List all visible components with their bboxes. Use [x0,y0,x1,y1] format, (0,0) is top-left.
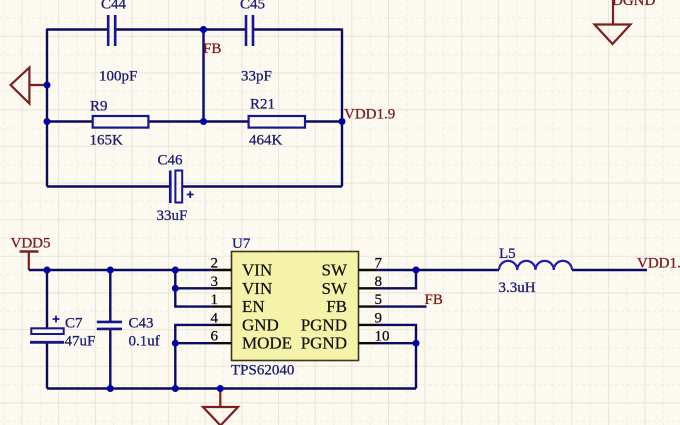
svg-text:L5: L5 [499,246,516,262]
wire C43 top drop [109,270,111,321]
svg-text:7: 7 [375,256,383,272]
svg-text:9: 9 [375,310,383,326]
svg-text:C43: C43 [129,316,154,332]
wire right vertical rail [341,29,343,187]
wire L5 to VDD1.9 [572,269,647,271]
wire vertical pins 2-3-1 column [175,270,213,307]
svg-text:2: 2 [211,256,219,272]
svg-text:R9: R9 [90,99,108,115]
svg-text:U7: U7 [232,236,251,252]
capacitor C45 [240,0,272,85]
junction: bottom bus / ground [217,385,224,392]
svg-text:PGND: PGND [301,315,347,334]
junction: left rail / arrow stub [44,82,51,89]
junction: bus / C7 [44,267,51,274]
junction: bottom bus / pins column [172,385,179,392]
inductor L5 [499,246,573,296]
junction: left rail / middle row [44,118,51,125]
wire C43 bottom drop [109,330,111,389]
svg-text:100pF: 100pF [99,69,137,85]
svg-text:33uF: 33uF [157,208,188,224]
ground (below chip) [203,389,238,425]
svg-text:1: 1 [211,292,219,308]
capacitor C7 (polarized) [30,316,95,350]
svg-text:C44: C44 [101,0,127,13]
wire R21 to VDD1.9 node [305,120,342,122]
pin stubs left (pins 2,3,1,4,6) [213,270,232,343]
junction: bus / pins column [172,267,179,274]
wire pin7 to inductor L5 [416,269,499,271]
junction: right rail / middle row (VDD1.9) [339,118,346,125]
wire VDD5 bus to chip pin2 [29,269,213,271]
svg-text:VIN: VIN [242,261,272,280]
svg-text:FB: FB [425,292,443,308]
svg-text:C7: C7 [65,316,83,332]
svg-text:3: 3 [211,274,219,290]
resistor R21 [249,97,305,149]
svg-text:VDD1.9: VDD1.9 [637,256,680,272]
svg-text:6: 6 [211,329,219,345]
wire pin3 row [175,287,213,289]
wire pin9/10 to bottom bus [377,325,416,389]
wire bottom bus [47,387,416,389]
junction: bottom bus / C43 [107,385,114,392]
wire pin10 row [377,342,416,344]
svg-text:8: 8 [375,274,383,290]
svg-text:PGND: PGND [301,334,347,353]
junction: bus / C43 [107,267,114,274]
wire bottom row left (rail to C46) [47,185,169,187]
svg-text:FB: FB [203,41,221,57]
wire R9 to R21 [148,120,248,122]
svg-text:C45: C45 [240,0,265,13]
capacitor C44 [99,0,137,85]
junction: pins column / pin3 [172,285,179,292]
resistor R9 [90,99,149,149]
wire middle row left (rail to R9) [47,120,93,122]
svg-text:SW: SW [322,261,348,280]
svg-text:47uF: 47uF [65,334,96,350]
wire pin6 row [175,342,213,344]
svg-text:C46: C46 [158,153,184,169]
capacitor C43 [97,316,160,350]
svg-text:165K: 165K [90,133,124,149]
capacitor C46 (polarized) [157,153,194,225]
svg-text:TPS62040: TPS62040 [231,363,294,379]
svg-text:4: 4 [211,310,219,326]
svg-text:SW: SW [322,279,348,298]
wire C46 to right rail [183,185,342,187]
wire top-left horizontal (left rail to C44) [47,28,107,30]
junction: pin7 / pin8 column [413,267,420,274]
svg-text:5: 5 [375,292,383,308]
wire FB vertical [202,30,204,122]
svg-text:VIN: VIN [242,279,272,298]
wire C7 top drop [46,270,48,328]
wire left vertical rail [46,29,48,187]
junction: FB / top wire [200,26,207,33]
svg-text:VDD5: VDD5 [11,236,51,252]
wire C45 to top-right corner [254,28,342,30]
junction: pins column / pin6 [172,340,179,347]
junction: FB / middle row [200,118,207,125]
pin stubs right (pins 7,8,5,9,10) [359,270,378,343]
op-amp U7 chip body TPS62040 [231,236,359,379]
svg-text:33pF: 33pF [241,69,272,85]
wire pin4 to bottom bus [175,325,213,389]
ground DGND (top right) [595,0,656,44]
wire C44 to FB node [116,28,245,30]
wire C7 bottom drop [46,344,48,389]
svg-text:DGND: DGND [612,0,655,9]
svg-text:EN: EN [242,297,265,316]
wire right column pin7/8 [377,270,416,288]
svg-text:R21: R21 [250,97,275,113]
svg-text:VDD1.9: VDD1.9 [344,107,395,123]
svg-text:464K: 464K [249,133,283,149]
svg-text:3.3uH: 3.3uH [499,280,536,296]
power port arrow (left, GND arrow) [29,84,47,86]
wire pin5 FB stub [377,305,427,307]
svg-text:GND: GND [242,315,279,334]
svg-text:FB: FB [326,297,347,316]
svg-text:10: 10 [375,329,390,345]
power port VDD5 [11,236,51,271]
junction: pin10 / right column [413,340,420,347]
svg-text:0.1uf: 0.1uf [129,334,160,350]
svg-text:MODE: MODE [242,334,292,353]
